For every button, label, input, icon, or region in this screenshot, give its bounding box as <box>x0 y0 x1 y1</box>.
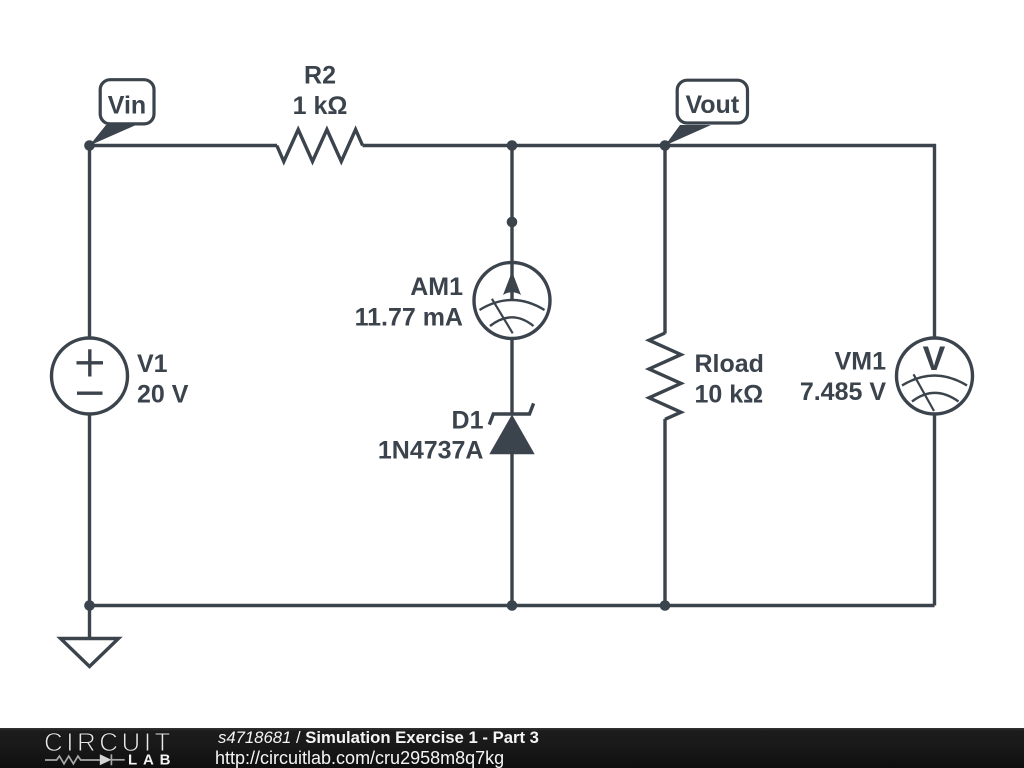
node flag Vin <box>90 80 155 146</box>
svg-text:1N4737A: 1N4737A <box>378 437 484 465</box>
label V1 value <box>137 350 189 409</box>
svg-text:7.485 V: 7.485 V <box>800 378 887 406</box>
voltage source V1 <box>52 338 128 414</box>
svg-text:VM1: VM1 <box>835 348 887 376</box>
wire right branch (Vout node to Rload) <box>663 146 666 334</box>
resistor Rload <box>649 333 681 419</box>
wire left branch (Vin node down to V1) <box>88 146 91 339</box>
node Vin junction dot <box>84 140 95 151</box>
svg-text:LAB: LAB <box>128 751 174 768</box>
node bottom right junction dot <box>660 600 671 611</box>
voltmeter VM1 <box>897 338 973 414</box>
label R2 value <box>293 62 348 121</box>
svg-text:1 kΩ: 1 kΩ <box>293 92 348 120</box>
wire top rail middle (R2 to Vout node) <box>363 144 666 147</box>
svg-text:R2: R2 <box>304 62 336 90</box>
svg-text:D1: D1 <box>452 407 484 435</box>
node Vout junction dot <box>660 140 671 151</box>
node wire joint dot above ammeter <box>507 217 518 228</box>
node flag Vout <box>665 80 748 145</box>
svg-text:Rload: Rload <box>695 350 764 378</box>
wire top rail left (Vin node to R2) <box>90 144 278 147</box>
svg-text:10 kΩ: 10 kΩ <box>695 381 764 409</box>
node bottom middle junction dot <box>507 600 518 611</box>
ammeter AM1 <box>474 263 550 339</box>
wire V1 to ground node <box>88 414 91 606</box>
svg-text:Vin: Vin <box>108 92 146 120</box>
svg-text:AM1: AM1 <box>410 273 463 301</box>
resistor R2 <box>277 130 363 162</box>
svg-text:Vout: Vout <box>685 91 739 119</box>
zener diode D1 <box>489 403 533 453</box>
footer url line 2 <box>215 748 504 768</box>
label AM1 value <box>355 273 464 332</box>
label D1 value <box>378 407 484 465</box>
bottom rail wire <box>90 604 935 607</box>
wire top rail right (Vout node to top-right corner, down to VM1) <box>665 146 935 339</box>
node ground junction dot <box>84 600 95 611</box>
wire middle branch (top junction to ammeter) <box>510 146 513 264</box>
wire zener to bottom rail <box>510 453 513 605</box>
svg-text:20 V: 20 V <box>137 381 189 409</box>
label Rload value <box>695 350 764 409</box>
svg-text:V: V <box>923 340 946 378</box>
footer title line 1 <box>218 728 539 748</box>
wire VM1 to bottom rail <box>933 414 936 606</box>
svg-text:11.77 mA: 11.77 mA <box>355 303 463 331</box>
wire Rload to bottom rail <box>663 419 666 606</box>
svg-text:V1: V1 <box>137 350 168 378</box>
label VM1 value <box>800 348 887 407</box>
wire ammeter to zener D1 <box>510 338 513 414</box>
node top junction dot <box>507 140 518 151</box>
footer bar <box>0 728 1024 768</box>
CircuitLab logo <box>44 726 174 768</box>
ground symbol <box>61 606 119 667</box>
